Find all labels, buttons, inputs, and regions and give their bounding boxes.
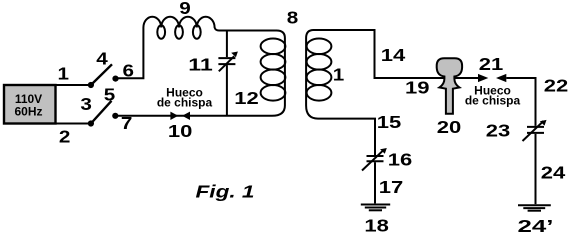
primary loop c [261,70,286,86]
svg-text:9: 9 [179,0,191,18]
ground 18 [361,205,390,211]
wire C16 to ground (node 17) [374,162,376,203]
svg-text:de chispa: de chispa [157,96,213,110]
secondary bottom wire (node 15) [318,119,375,155]
transformer secondary winding spine [306,30,318,119]
electrode 20 (pushpin) [437,58,462,114]
switch S4 pivot junction [88,82,94,88]
primary loop b [261,54,286,70]
svg-text:23: 23 [486,120,511,140]
capacitor C23 plates [527,127,544,133]
svg-text:22: 22 [544,76,569,96]
wire C23 to ground (node 24) [535,134,537,204]
spark gap 21 left triangle [478,74,488,82]
svg-text:2: 2 [59,127,71,147]
switch S5 blade [91,101,112,124]
secondary loop a [307,39,332,55]
svg-text:17: 17 [379,177,404,197]
ground 24' [518,205,551,210]
svg-text:de chispa: de chispa [465,94,521,108]
svg-text:10: 10 [168,121,193,141]
svg-text:24: 24 [541,162,566,182]
capacitor C16 arrow [362,151,383,171]
spark gap 21 right triangle [496,74,506,82]
switch S4 contact node 6 [112,76,118,82]
switch S4 blade [91,64,112,85]
switch S5 contact node 7 [112,113,118,119]
svg-text:1: 1 [333,65,345,85]
svg-text:4: 4 [96,49,108,69]
svg-text:21: 21 [479,54,504,74]
svg-text:8: 8 [287,8,299,28]
svg-text:12: 12 [234,88,259,108]
capacitor C11 plates [218,58,235,64]
svg-text:16: 16 [388,150,413,170]
wire node 1 (box top to switch pivot) [56,84,91,86]
primary loop a [261,39,286,55]
svg-text:18: 18 [364,216,389,236]
inductor 9 loop b [175,25,183,39]
svg-text:14: 14 [381,45,406,65]
secondary loop c [307,70,332,86]
svg-text:24’: 24’ [518,216,554,236]
svg-text:19: 19 [405,78,430,98]
transformer primary winding 12 spine [272,31,285,116]
spark gap 10 left triangle [170,112,178,120]
wire node 2 (box bottom to switch pivot) [56,123,91,125]
inductor 9 loop c [193,25,201,39]
spark gap 10 right triangle [182,112,190,120]
svg-text:3: 3 [80,94,92,114]
svg-text:1: 1 [58,64,70,84]
svg-text:60Hz: 60Hz [14,105,42,119]
secondary loop d [307,85,332,101]
svg-text:20: 20 [437,117,462,137]
capacitor C11 branch bottom wire [226,65,228,116]
bottom rail with spark gap 10 [115,115,272,117]
capacitor C16 plates [367,156,384,161]
AC source box 110V 60Hz [4,85,56,124]
svg-text:15: 15 [377,112,402,132]
svg-text:5: 5 [104,85,116,105]
svg-text:11: 11 [188,55,213,75]
capacitor C11 arrow [219,56,234,71]
secondary loop b [307,54,332,70]
capacitor C11 branch top wire [226,31,228,58]
inductor 9 loop a [157,25,165,39]
inductor 9 (humps) [143,17,276,31]
secondary top wire to electrode (node 14, 19) [314,30,479,78]
switch S5 pivot junction [88,120,94,126]
wire from node 6 up to top rail [116,28,144,79]
capacitor C23 arrow [523,121,544,141]
wire node 22 down right side [506,78,535,126]
svg-text:Fig. 1: Fig. 1 [196,182,255,202]
primary loop d [261,85,286,101]
